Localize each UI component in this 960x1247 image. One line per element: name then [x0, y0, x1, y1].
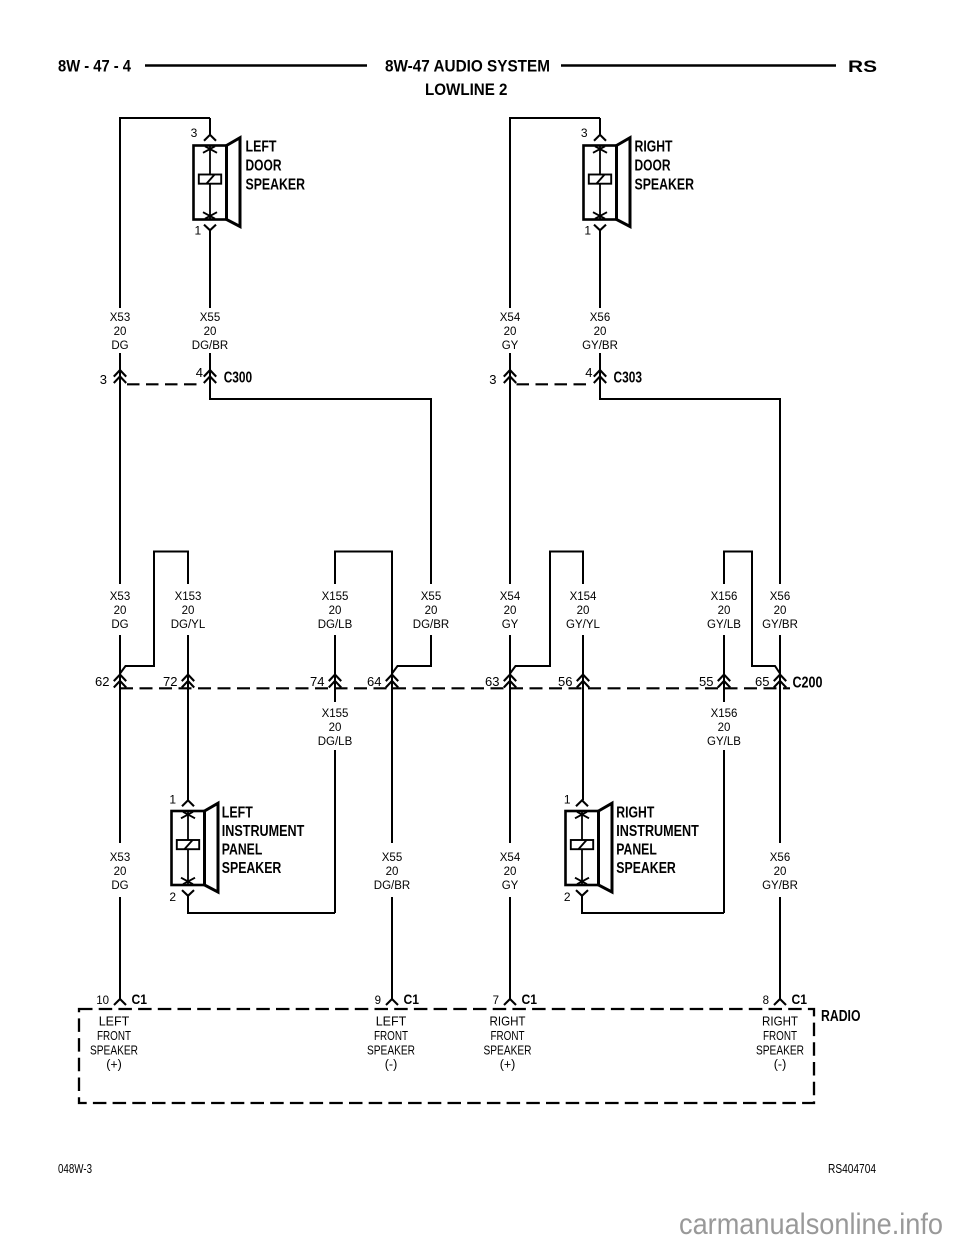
svg-text:20: 20: [329, 605, 342, 617]
svg-text:C200: C200: [793, 675, 823, 692]
svg-text:2: 2: [564, 890, 571, 904]
svg-text:SPEAKER: SPEAKER: [246, 177, 306, 194]
svg-text:(+): (+): [106, 1057, 122, 1071]
svg-text:048W-3: 048W-3: [58, 1161, 92, 1176]
wire X54 top horizontal: [510, 117, 600, 119]
svg-text:SPEAKER: SPEAKER: [484, 1043, 532, 1057]
wire to right door speaker pin 3: [599, 118, 601, 135]
wire X54 through C200 pin 63: [509, 635, 511, 843]
svg-text:20: 20: [504, 866, 517, 878]
svg-text:GY/LB: GY/LB: [707, 736, 741, 748]
wire left IP speaker pin 2 to X155: [188, 896, 335, 913]
header rule left: [145, 64, 367, 67]
svg-text:9: 9: [375, 995, 381, 1007]
svg-text:20: 20: [718, 722, 731, 734]
svg-text:LEFT: LEFT: [222, 805, 253, 822]
svg-text:1: 1: [195, 224, 202, 238]
svg-text:20: 20: [774, 605, 787, 617]
connector C1 pin 10: [114, 999, 126, 1005]
svg-text:INSTRUMENT: INSTRUMENT: [616, 823, 699, 840]
svg-text:RIGHT: RIGHT: [490, 1015, 526, 1029]
svg-text:64: 64: [367, 674, 381, 689]
svg-text:4: 4: [585, 365, 592, 380]
svg-text:SPEAKER: SPEAKER: [635, 177, 695, 194]
connector C303 pin 4: [594, 370, 606, 377]
svg-text:SPEAKER: SPEAKER: [616, 860, 676, 877]
svg-text:INSTRUMENT: INSTRUMENT: [222, 823, 305, 840]
wire X54 through C303: [509, 353, 511, 584]
connector C300 dashed line: [127, 383, 203, 385]
svg-text:X154: X154: [570, 591, 597, 603]
wire X53 to radio C1 pin 10: [119, 897, 121, 999]
svg-text:DG/BR: DG/BR: [374, 880, 410, 892]
svg-text:FRONT: FRONT: [491, 1029, 525, 1043]
svg-text:RIGHT: RIGHT: [616, 805, 654, 822]
svg-text:SPEAKER: SPEAKER: [90, 1043, 138, 1057]
svg-text:X156: X156: [711, 708, 738, 720]
svg-text:X155: X155: [322, 708, 349, 720]
svg-text:LEFT: LEFT: [376, 1015, 407, 1029]
wire X55 bend into C200 pin 64: [392, 635, 431, 674]
svg-text:20: 20: [594, 326, 607, 338]
wire branch X155 to X55 bracket: [335, 552, 392, 844]
connector C200 pin 74: [329, 675, 341, 682]
svg-text:72: 72: [163, 674, 177, 689]
svg-text:20: 20: [114, 605, 127, 617]
svg-text:20: 20: [425, 605, 438, 617]
wire X156 through C200 pin 55: [723, 635, 725, 702]
svg-text:GY: GY: [502, 619, 519, 631]
connector pin 3 right door speaker: [594, 135, 606, 141]
connector C1 pin 9: [386, 999, 398, 1005]
svg-text:10: 10: [96, 995, 109, 1007]
svg-text:8W-47 AUDIO SYSTEM: 8W-47 AUDIO SYSTEM: [385, 58, 550, 76]
connector pin 2 right IP speaker: [576, 890, 588, 896]
svg-text:DOOR: DOOR: [635, 158, 671, 175]
label RIGHT INSTRUMENT PANEL SPEAKER: [616, 805, 699, 878]
wire X55 from pin 1: [209, 230, 211, 308]
svg-text:RS404704: RS404704: [828, 1161, 876, 1176]
wire X53 vertical upper: [119, 117, 121, 308]
svg-text:2: 2: [169, 890, 176, 904]
svg-text:X56: X56: [590, 312, 610, 324]
connector C200 pin 63: [504, 675, 516, 682]
svg-text:GY: GY: [502, 880, 519, 892]
svg-text:RIGHT: RIGHT: [762, 1015, 798, 1029]
svg-text:DG/LB: DG/LB: [318, 619, 353, 631]
connector pin 3 left door speaker: [204, 135, 216, 141]
connector pin 1 left door speaker: [204, 225, 216, 231]
svg-text:3: 3: [581, 126, 588, 140]
svg-text:DG: DG: [111, 619, 128, 631]
radio box: [79, 1009, 814, 1103]
wire X56 into C303 pin 4: [599, 353, 601, 377]
wire X54 to radio C1 pin 7: [509, 897, 511, 999]
svg-text:63: 63: [485, 674, 499, 689]
svg-text:20: 20: [329, 722, 342, 734]
svg-text:X56: X56: [770, 591, 790, 603]
svg-text:X155: X155: [322, 591, 349, 603]
svg-text:LEFT: LEFT: [99, 1015, 130, 1029]
connector C300 pin 4: [204, 370, 216, 377]
svg-text:4: 4: [196, 365, 203, 380]
wire X56 from pin 1: [599, 230, 601, 308]
svg-text:56: 56: [558, 674, 572, 689]
svg-text:X55: X55: [421, 591, 441, 603]
svg-text:C1: C1: [522, 991, 538, 1007]
speaker RIGHT DOOR SPEAKER: [584, 138, 631, 227]
svg-text:PANEL: PANEL: [616, 842, 657, 859]
label LEFT DOOR SPEAKER: [246, 139, 306, 194]
svg-text:GY/LB: GY/LB: [707, 619, 741, 631]
wire X54 vertical upper: [509, 117, 511, 308]
connector C200 pin 62: [114, 675, 126, 682]
connector C200 dashed line: [120, 687, 790, 689]
connector pin 1 left IP speaker: [182, 800, 194, 806]
svg-text:GY/BR: GY/BR: [582, 340, 618, 352]
svg-text:DG: DG: [111, 880, 128, 892]
svg-text:(+): (+): [500, 1057, 516, 1071]
wire branch X53 to X153 bracket: [120, 552, 188, 674]
svg-text:X54: X54: [500, 591, 521, 603]
wire branch X54 to X154 bracket: [510, 552, 583, 674]
svg-text:SPEAKER: SPEAKER: [222, 860, 282, 877]
svg-text:FRONT: FRONT: [374, 1029, 408, 1043]
wire X56 jog right below C303: [600, 377, 780, 584]
wire X153 to left IP speaker pin 1: [187, 635, 189, 800]
svg-text:RS: RS: [848, 57, 877, 76]
svg-text:C1: C1: [132, 991, 148, 1007]
svg-text:20: 20: [504, 326, 517, 338]
svg-text:55: 55: [699, 674, 713, 689]
label RIGHT DOOR SPEAKER: [635, 139, 695, 194]
wire X155 through C200 pin 74: [334, 635, 336, 702]
connector C303 pin 3: [504, 370, 516, 377]
svg-text:DOOR: DOOR: [246, 158, 282, 175]
connector pin 2 left IP speaker: [182, 890, 194, 896]
svg-text:DG/YL: DG/YL: [171, 619, 206, 631]
svg-text:1: 1: [169, 793, 176, 807]
connector C200 pin 64: [386, 675, 398, 682]
svg-text:20: 20: [718, 605, 731, 617]
svg-text:FRONT: FRONT: [763, 1029, 797, 1043]
svg-text:X153: X153: [175, 591, 202, 603]
svg-text:carmanualsonline.info: carmanualsonline.info: [679, 1208, 943, 1241]
svg-text:20: 20: [386, 866, 399, 878]
wire X53 through C200 pin 62: [119, 635, 121, 843]
svg-text:DG/LB: DG/LB: [318, 736, 353, 748]
svg-text:3: 3: [489, 372, 496, 387]
connector C200 pin 55: [718, 675, 730, 682]
svg-text:20: 20: [182, 605, 195, 617]
wire to left door speaker pin 3: [209, 118, 211, 135]
svg-text:65: 65: [755, 674, 769, 689]
svg-text:1: 1: [564, 793, 571, 807]
svg-text:20: 20: [774, 866, 787, 878]
connector C1 pin 8: [774, 999, 786, 1005]
header rule right: [561, 64, 836, 67]
wire X55 to radio C1 pin 9: [391, 897, 393, 999]
svg-text:20: 20: [114, 866, 127, 878]
svg-text:GY: GY: [502, 340, 519, 352]
svg-text:7: 7: [493, 995, 499, 1007]
svg-text:20: 20: [114, 326, 127, 338]
connector pin 1 right door speaker: [594, 225, 606, 231]
svg-text:DG: DG: [111, 340, 128, 352]
svg-text:20: 20: [577, 605, 590, 617]
connector C200 pin 65: [774, 675, 786, 682]
svg-text:GY/YL: GY/YL: [566, 619, 600, 631]
connector C300 pin 3: [114, 370, 126, 377]
connector C200 pin 72: [182, 675, 194, 682]
wire X55 jog right below C300: [210, 377, 431, 584]
connector C1 pin 7: [504, 999, 516, 1005]
svg-text:LOWLINE 2: LOWLINE 2: [425, 81, 508, 99]
svg-text:X53: X53: [110, 852, 130, 864]
svg-text:PANEL: PANEL: [222, 842, 263, 859]
speaker RIGHT INSTRUMENT PANEL SPEAKER: [566, 803, 613, 892]
wire X55 into C300 pin 4: [209, 353, 211, 377]
wire X56 through C200 pin 65: [779, 635, 781, 843]
svg-text:SPEAKER: SPEAKER: [367, 1043, 415, 1057]
svg-text:62: 62: [95, 674, 109, 689]
svg-text:DG/BR: DG/BR: [192, 340, 228, 352]
svg-text:1: 1: [584, 224, 591, 238]
svg-text:8: 8: [763, 995, 769, 1007]
svg-text:X54: X54: [500, 852, 521, 864]
svg-text:GY/BR: GY/BR: [762, 880, 798, 892]
svg-text:X55: X55: [382, 852, 402, 864]
svg-text:FRONT: FRONT: [97, 1029, 131, 1043]
svg-text:LEFT: LEFT: [246, 139, 277, 156]
wire right IP speaker pin 2 to X156: [582, 896, 724, 913]
wire X154 to right IP speaker pin 1: [582, 635, 584, 800]
svg-text:C1: C1: [404, 991, 420, 1007]
connector C200 pin 56: [577, 675, 589, 682]
speaker LEFT INSTRUMENT PANEL SPEAKER: [172, 803, 219, 892]
svg-text:C300: C300: [224, 370, 253, 387]
connector pin 1 right IP speaker: [576, 800, 588, 806]
svg-text:X56: X56: [770, 852, 790, 864]
wire X155 to left IP speaker pin 2: [334, 750, 336, 913]
svg-text:GY/BR: GY/BR: [762, 619, 798, 631]
svg-text:20: 20: [504, 605, 517, 617]
svg-text:X53: X53: [110, 591, 130, 603]
svg-text:SPEAKER: SPEAKER: [756, 1043, 804, 1057]
svg-text:20: 20: [204, 326, 217, 338]
svg-text:3: 3: [191, 126, 198, 140]
wire X53 top horizontal: [119, 117, 210, 119]
svg-text:74: 74: [310, 674, 324, 689]
svg-text:X53: X53: [110, 312, 130, 324]
svg-text:RADIO: RADIO: [821, 1008, 861, 1025]
wire X156 to right IP speaker pin 2: [723, 750, 725, 913]
svg-text:X54: X54: [500, 312, 521, 324]
svg-text:C1: C1: [792, 991, 808, 1007]
svg-text:(-): (-): [385, 1057, 398, 1071]
svg-text:3: 3: [100, 372, 107, 387]
svg-text:8W - 47 - 4: 8W - 47 - 4: [58, 58, 132, 76]
svg-text:X55: X55: [200, 312, 220, 324]
svg-text:X156: X156: [711, 591, 738, 603]
speaker LEFT DOOR SPEAKER: [194, 138, 241, 227]
svg-text:(-): (-): [774, 1057, 787, 1071]
svg-text:RIGHT: RIGHT: [635, 139, 673, 156]
svg-text:DG/BR: DG/BR: [413, 619, 449, 631]
label LEFT INSTRUMENT PANEL SPEAKER: [222, 805, 305, 878]
wire branch X156 to X56 bracket: [724, 552, 780, 674]
wire X56 to radio C1 pin 8: [779, 897, 781, 999]
connector C303 dashed line: [517, 383, 593, 385]
wire X53 through C300: [119, 353, 121, 584]
svg-text:C303: C303: [614, 370, 643, 387]
